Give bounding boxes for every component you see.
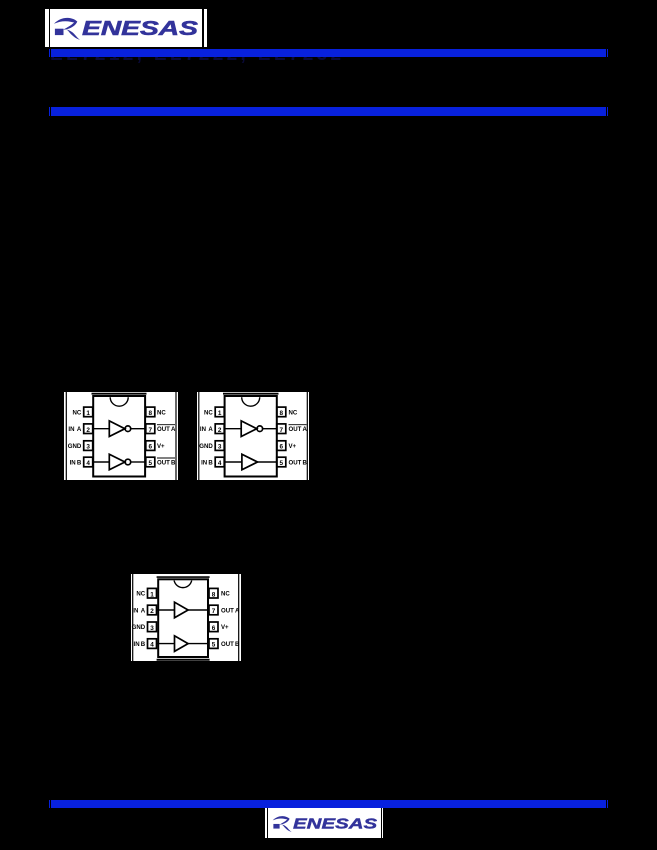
pin 3 box [148,622,157,632]
label OUT B pin5 [221,641,240,648]
hidden navy title text (part numbers) [50,49,610,64]
svg-text:GND: GND [132,624,146,631]
figure right border line [174,392,176,481]
svg-text:3: 3 [86,443,90,450]
svg-text:V+: V+ [156,442,164,449]
svg-text:6: 6 [279,443,283,450]
pin 7 box [209,605,218,615]
figure right border line [306,392,308,481]
svg-text:IN B: IN B [69,459,81,466]
pin 3 box [83,440,92,450]
pin 6 box [276,440,285,450]
svg-text:5: 5 [212,641,216,648]
svg-text:1: 1 [151,591,155,598]
buffer B [241,454,257,470]
pin 1 box [215,407,224,417]
svg-text:NC: NC [156,409,165,416]
pin-1 notch [241,397,259,406]
svg-text:OUT B: OUT B [288,459,307,466]
blue rule 1 [49,49,50,57]
pin 7 box [276,423,285,433]
pin 6 box [145,440,154,450]
label OUT A pin7 [221,607,240,614]
top Renesas logo white box [45,9,207,47]
IC U1 package body [91,393,146,476]
pin 7 box [145,423,154,433]
label OUT A pin7 (overline) [288,424,307,432]
figure right border line [238,574,240,662]
wire buffer B output to pin5 [188,642,209,644]
pin 2 box [148,605,157,615]
svg-text:7: 7 [148,426,152,433]
svg-text:NC: NC [221,590,230,597]
svg-text:2: 2 [86,426,90,433]
label NC pin8 [156,409,165,416]
wire inverter B output to pin5 [130,460,145,462]
svg-text:8: 8 [148,409,152,416]
svg-text:NC: NC [204,409,213,416]
inverter B [109,454,130,470]
label NC pin1 [72,409,81,416]
IC U3 package body [157,577,210,660]
svg-text:6: 6 [212,624,216,631]
pin 8 box [276,407,285,417]
svg-text:IN A: IN A [133,607,147,614]
label NC pin8 [288,409,297,416]
svg-text:6: 6 [148,443,152,450]
pin 1 box [83,407,92,417]
pin 4 box [83,457,92,467]
wire buffer B output to pin5 [257,460,276,462]
svg-text:IN A: IN A [68,426,82,433]
label OUT A pin7 (overline) [156,424,175,432]
svg-text:5: 5 [279,460,283,467]
pin-1 notch [110,397,128,406]
pin 2 box [215,423,224,433]
figure left border line [132,574,134,662]
svg-text:IN B: IN B [134,641,146,648]
blue rule 3 (footer) [49,800,50,808]
svg-text:OUT B: OUT B [156,459,175,466]
svg-text:1: 1 [86,409,90,416]
buffer A [175,602,189,618]
svg-text:NC: NC [288,409,297,416]
svg-text:2: 2 [151,608,155,615]
svg-text:GND: GND [67,442,81,449]
svg-text:4: 4 [86,460,90,467]
svg-text:3: 3 [217,443,221,450]
svg-text:3: 3 [151,624,155,631]
wire inverter A output to pin7 [262,427,276,429]
label IN B pin4 [134,641,146,648]
blue rule 2 [49,107,50,116]
svg-text:IN A: IN A [199,426,213,433]
svg-text:V+: V+ [288,442,296,449]
label V+ pin6 [221,624,229,631]
svg-text:8: 8 [212,591,216,598]
buffer B [175,635,189,651]
svg-text:ENESAS: ENESAS [82,18,199,40]
svg-text:8: 8 [279,409,283,416]
label IN B pin4 [201,459,213,466]
wire pin4 to inverter B input [92,460,109,462]
label GND pin3 [132,624,146,631]
label NC pin1 [137,590,146,597]
pin-1 notch [174,580,192,587]
top Renesas logotype [53,17,199,45]
pin 8 box [209,588,218,598]
svg-text:2: 2 [217,426,221,433]
label V+ pin6 [156,442,164,449]
pin 8 box [145,407,154,417]
label GND pin3 [67,442,81,449]
svg-text:GND: GND [199,442,213,449]
figure left border line [65,392,67,481]
svg-text:V+: V+ [221,624,229,631]
label OUT B pin5 [288,459,307,466]
svg-text:5: 5 [148,460,152,467]
figure left border line [197,392,199,481]
bottom Renesas logotype [272,815,378,838]
pin 3 box [215,440,224,450]
wire pin2 to buffer A input [157,609,175,611]
svg-text:7: 7 [212,608,216,615]
svg-text:NC: NC [137,590,146,597]
label GND pin3 [199,442,213,449]
label IN A pin2 [68,426,82,433]
svg-text:4: 4 [151,641,155,648]
svg-text:OUT A: OUT A [156,426,175,433]
svg-text:OUT A: OUT A [288,426,307,433]
label OUT B pin5 (overline) [156,457,175,465]
label NC pin8 [221,590,230,597]
bottom Renesas logo white box [265,807,383,839]
label IN B pin4 [69,459,81,466]
svg-text:7: 7 [279,426,283,433]
label NC pin1 [204,409,213,416]
wire pin4 to buffer B input [224,460,242,462]
svg-text:1: 1 [217,409,221,416]
pin 1 box [148,588,157,598]
inverter A [109,420,130,436]
wire pin4 to buffer B input [157,642,175,644]
wire buffer A output to pin7 [188,609,209,611]
wire pin2 to inverter A input [224,427,241,429]
svg-text:4: 4 [217,460,221,467]
IC U2 package body [223,393,278,476]
wire pin2 to inverter A input [92,427,109,429]
svg-text:OUT A: OUT A [221,607,240,614]
wire inverter A output to pin7 [130,427,145,429]
pin 4 box [148,638,157,648]
svg-text:NC: NC [72,409,81,416]
pin 5 box [276,457,285,467]
svg-text:IN B: IN B [201,459,213,466]
pin 6 box [209,622,218,632]
label IN A pin2 [133,607,147,614]
inverter A [241,420,262,436]
label IN A pin2 [199,426,213,433]
pin 4 box [215,457,224,467]
pin 2 box [83,423,92,433]
label V+ pin6 [288,442,296,449]
svg-text:OUT B: OUT B [221,641,240,648]
svg-text:ENESAS: ENESAS [293,817,378,833]
pin 5 box [209,638,218,648]
pin 5 box [145,457,154,467]
